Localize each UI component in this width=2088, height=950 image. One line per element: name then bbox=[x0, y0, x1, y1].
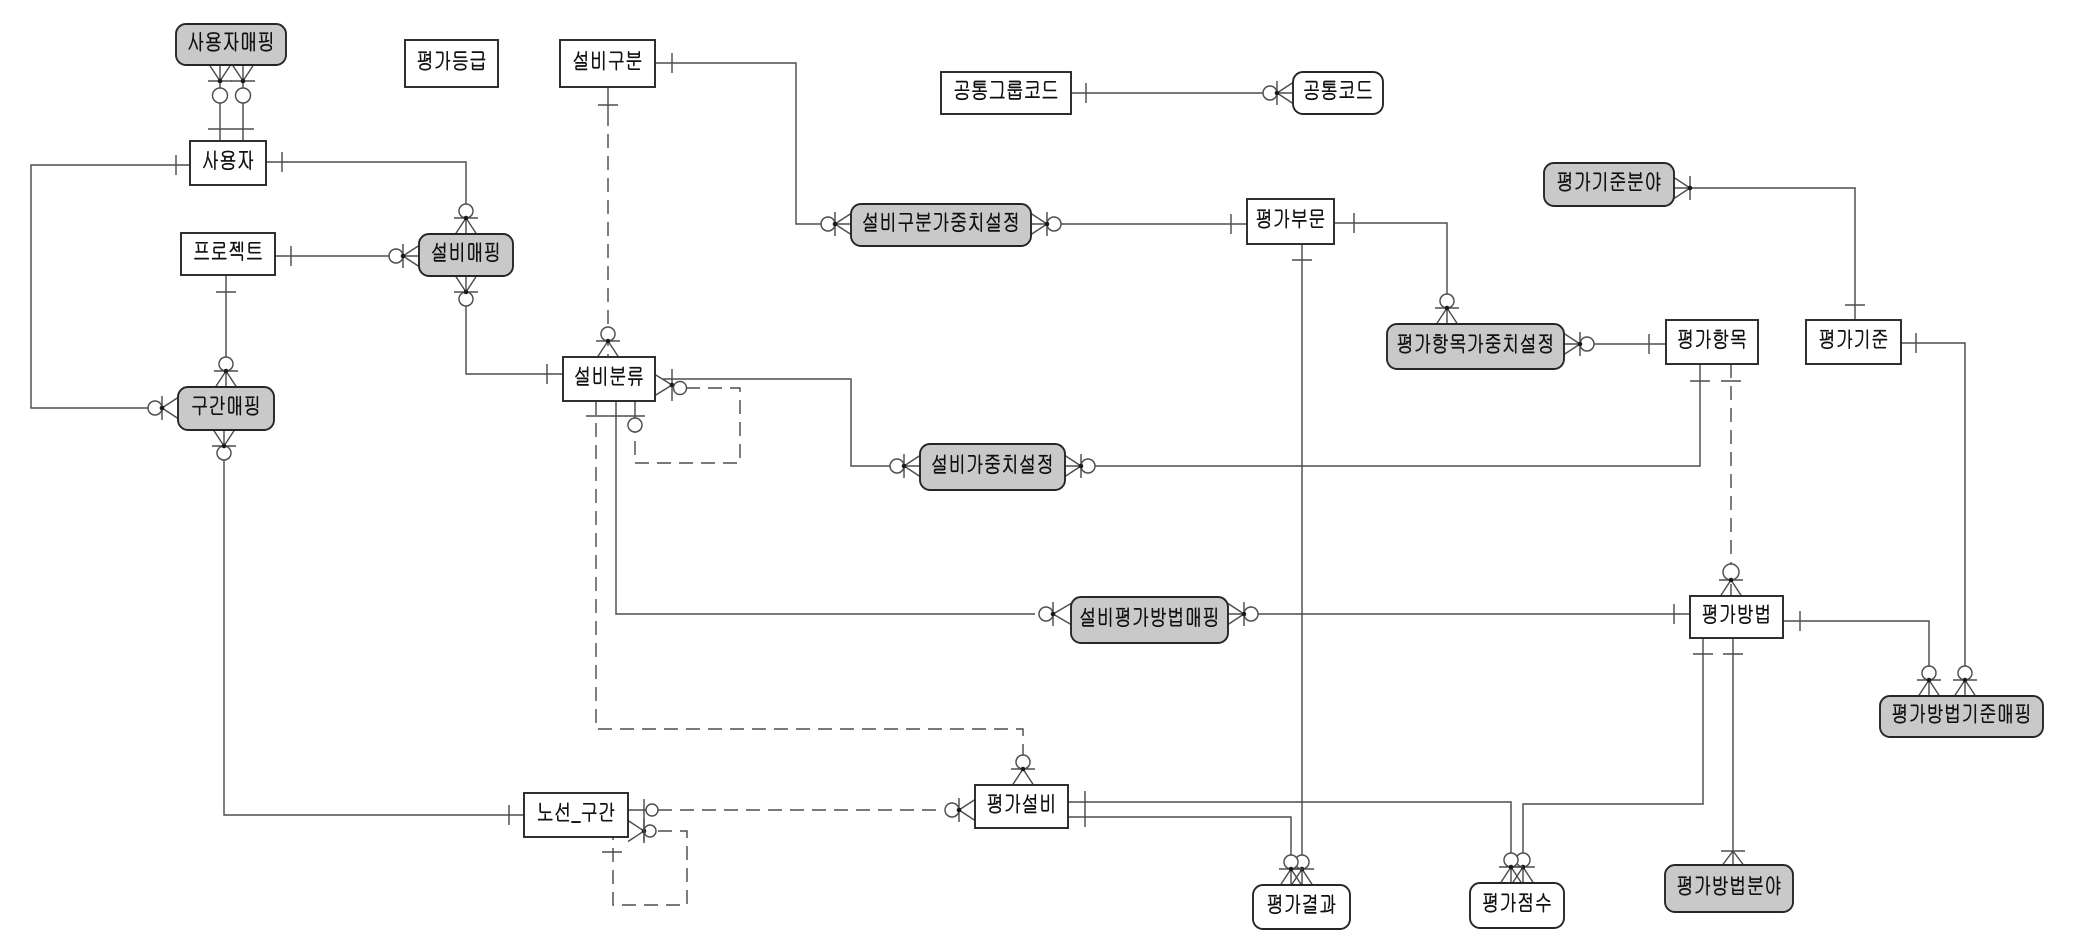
wire 프로젝트-설비매핑 bbox=[275, 244, 419, 268]
wire 설비분류-설비평가방법매핑 bbox=[586, 401, 1071, 626]
wire 사용자-설비매핑 bbox=[266, 152, 478, 234]
wire 설비매핑-설비분류 bbox=[454, 276, 563, 384]
entity 평가기준분야 bbox=[1544, 163, 1674, 206]
entity 설비매핑 bbox=[419, 234, 513, 276]
wire 설비구분-설비분류 bbox=[596, 87, 620, 357]
wire 평가항목-평가방법 bbox=[1719, 364, 1743, 596]
entity 평가설비 bbox=[975, 785, 1068, 828]
entity 평가결과 bbox=[1253, 885, 1350, 929]
wire 설비분류-평가설비 bbox=[596, 401, 1035, 785]
entity 평가방법분야 bbox=[1665, 865, 1793, 912]
wire 평가기준-평가방법기준매핑 bbox=[1901, 333, 1977, 696]
entity 평가부문 bbox=[1247, 199, 1334, 244]
entity 공통그룹코드 bbox=[941, 72, 1071, 114]
wire 사용자-구간매핑 bbox=[31, 155, 190, 420]
wire 사용자매핑-사용자 b bbox=[208, 65, 255, 141]
wire 공통그룹코드-공통코드 bbox=[1071, 81, 1293, 105]
entity 평가항목가중치설정 bbox=[1387, 324, 1564, 369]
wire 평가설비-평가결과 bbox=[1068, 791, 1303, 885]
entity 설비분류 bbox=[563, 357, 655, 401]
wire 설비구분가중치설정-평가부문 bbox=[1031, 212, 1247, 236]
entity 평가기준 bbox=[1806, 320, 1901, 364]
entity 사용자 bbox=[190, 141, 266, 185]
wire 설비분류-설비가중치설정 bbox=[655, 369, 920, 478]
entity 설비구분 bbox=[560, 40, 655, 87]
wire 설비평가방법매핑-평가방법 bbox=[1228, 602, 1690, 626]
wire 평가방법-평가방법분야 bbox=[1721, 638, 1745, 865]
entity 설비평가방법매핑 bbox=[1071, 597, 1228, 643]
wire 평가항목-설비가중치설정 bbox=[1065, 364, 1710, 478]
entity 평가방법 bbox=[1690, 596, 1783, 638]
wire 노선_구간-평가설비 bbox=[628, 798, 975, 822]
wire 평가기준분야-평가기준 bbox=[1674, 176, 1865, 320]
entity 구간매핑 bbox=[178, 387, 274, 430]
wire 평가부문-평가결과 bbox=[1290, 244, 1314, 885]
wire 평가방법-평가점수 bbox=[1511, 638, 1713, 883]
wire 평가설비-평가점수 bbox=[1068, 802, 1523, 883]
wire 평가항목가중치설정-평가항목 bbox=[1564, 332, 1666, 356]
entity 프로젝트 bbox=[181, 233, 275, 275]
entity 노선_구간 bbox=[524, 793, 628, 837]
entity 평가점수 bbox=[1470, 883, 1564, 928]
entity 설비가중치설정 bbox=[920, 444, 1065, 490]
wire 노선_구간 self-loop bbox=[602, 799, 687, 905]
wire 평가방법-평가방법기준매핑 bbox=[1783, 611, 1941, 696]
wire 설비구분-설비구분가중치설정 bbox=[655, 53, 851, 236]
entity 평가등급 bbox=[405, 40, 498, 87]
wire 구간매핑-노선_구간 bbox=[212, 430, 524, 825]
entity 설비구분가중치설정 bbox=[851, 204, 1031, 246]
wire 평가부문-평가항목가중치설정 bbox=[1334, 213, 1459, 324]
entity 공통코드 bbox=[1293, 72, 1383, 114]
entity 사용자매핑 bbox=[176, 24, 286, 65]
entity 평가항목 bbox=[1666, 320, 1758, 364]
wire 사용자매핑-사용자 a bbox=[208, 65, 232, 141]
wire 설비분류 self-loop bbox=[628, 382, 740, 464]
entity 평가방법기준매핑 bbox=[1880, 696, 2043, 737]
wire 프로젝트-구간매핑 bbox=[214, 275, 238, 387]
